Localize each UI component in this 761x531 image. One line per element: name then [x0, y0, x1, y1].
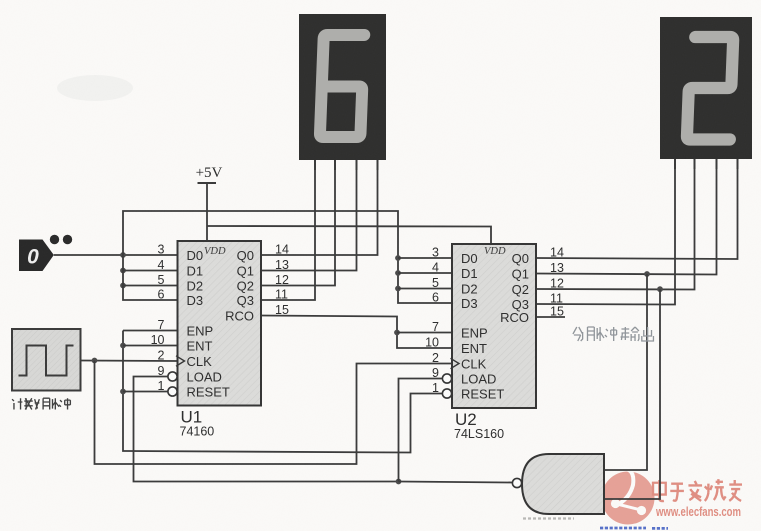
wire U1 ENT (pin 10) — [123, 345, 178, 347]
node U2 ENP junction — [394, 330, 400, 336]
display DS2 leads — [675, 159, 738, 169]
wire U2 Q0 (pin 14) to DS2 — [536, 159, 738, 259]
wire U2 Q3 (pin 11) to DS2 — [536, 159, 675, 305]
wire U2 LOAD (pin 9) — [399, 379, 443, 482]
wire U1 Q1 (pin 13) to DS1 — [261, 160, 357, 271]
wire U1 Q3 (pin 11) to DS1 — [261, 160, 315, 300]
wire U1 ENP/ENT/RESET column down to U2 RESET — [123, 331, 443, 453]
wire U2 Q2 (pin 12) to DS2 — [536, 159, 695, 290]
wire Q2 down to NAND input 2 — [604, 289, 660, 499]
node U1 RESET junction — [120, 389, 126, 395]
wire D rail U1 column to U2 D column — [123, 211, 452, 303]
blue artifact bottom — [600, 527, 668, 530]
label 分脉冲输出 (minute pulse output) — [573, 327, 654, 341]
wire clock down-around to U2 CLK (pin 2) — [95, 361, 453, 465]
wire U2 D1 (pin 4) — [398, 272, 452, 274]
wire U1 Q0 (pin 14) to DS1 — [261, 160, 378, 255]
node D-input column U2 — [395, 255, 401, 291]
wire source-0 to U1 D0 (pin 3) — [54, 254, 178, 256]
watermark elecfans logo — [602, 469, 655, 525]
7-segment display DS2 showing digit 2 — [660, 17, 752, 159]
power +5V symbol — [196, 165, 223, 241]
counter U1 74160 — [151, 241, 289, 439]
wire U1 D1 (pin 4) — [123, 270, 178, 272]
wire U2 ENP (pin 7) — [397, 332, 452, 334]
clock source (counting pulse generator) — [12, 329, 81, 391]
node U1 ENT junction — [120, 343, 126, 349]
wire D column U1 (0 to D1,D2,D3) — [123, 255, 178, 300]
scan artifact dashes — [523, 517, 574, 519]
wire Q1 down to NAND input 1 — [604, 274, 647, 470]
7-segment display DS1 showing digit 6 — [299, 14, 386, 160]
node clock junction — [92, 358, 98, 364]
wire U1 ENP (pin 7) — [123, 330, 178, 332]
logic-low source 0 — [19, 235, 72, 271]
wire U1 RCO (pin 15) to U2 ENP/ENT — [261, 316, 452, 349]
node D-input column U1 — [120, 252, 126, 288]
wire U2 D2 (pin 5) — [398, 288, 452, 290]
counter U2 74LS160 — [425, 244, 564, 441]
wire U2 D0 (pin 3) — [398, 257, 452, 259]
wire +5V rail to U2 VDD — [207, 226, 491, 244]
wire U2 RCO stub (pin 15) — [536, 316, 565, 318]
wire U1 RESET (pin 1) — [123, 391, 169, 393]
node Q2 junction to NAND — [657, 286, 663, 292]
wire clock to U1 CLK (pin 2) — [81, 360, 178, 363]
wire U1 Q2 (pin 12) to DS1 — [261, 160, 335, 286]
label 计数脉冲 (counting pulse) — [12, 398, 70, 409]
wire LOAD net to NAND output bubble — [399, 482, 514, 483]
node Q1 junction to NAND — [644, 271, 650, 277]
wire U1 LOAD (pin 9) to LOAD net — [134, 377, 399, 482]
wire U2 Q1 (pin 13) to DS2 — [536, 159, 717, 275]
NAND gate U3 (mirrored, output left) — [512, 454, 604, 514]
wire U1 D2 (pin 5) — [123, 285, 178, 287]
watermark text 电子发烧友 — [653, 479, 742, 501]
node LOAD net junction — [396, 479, 402, 485]
display DS1 leads — [315, 160, 378, 170]
